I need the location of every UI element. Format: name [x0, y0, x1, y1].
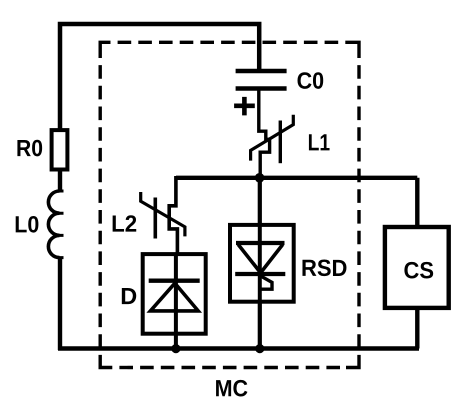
svg-text:L2: L2	[111, 211, 137, 237]
saturable inductor L1 winding (meander)	[259, 87, 270, 176]
L2 core bar	[154, 198, 158, 239]
svg-text:CS: CS	[404, 257, 435, 283]
svg-text:R0: R0	[16, 135, 43, 161]
load box CS	[385, 227, 449, 308]
svg-text:RSD: RSD	[301, 255, 348, 281]
dashed enclosure MC : corner pieces	[100, 42, 359, 367]
resistor R0	[52, 130, 68, 169]
C0 polarity plus sign	[234, 97, 255, 116]
wire: junction to RSD to bottom	[258, 178, 262, 349]
node: junction below L1	[255, 173, 265, 183]
svg-text:C0: C0	[297, 68, 325, 94]
svg-text:MC: MC	[215, 375, 249, 401]
wire: top loop (left vertical, top horizontal, C0 branch drop)	[60, 24, 259, 130]
wire through RSD (redrawn over box)	[258, 226, 262, 300]
node: bottom junction at RSD branch	[255, 344, 264, 353]
svg-text:L0: L0	[14, 211, 39, 237]
dashed enclosure MC : edges	[100, 42, 359, 367]
wire: bottom rail	[58, 346, 419, 350]
wire: R0 to L0	[58, 170, 62, 193]
svg-text:L1: L1	[308, 129, 331, 155]
svg-text:D: D	[120, 283, 137, 309]
L1 adjust arrow	[251, 115, 294, 161]
diode D symbol	[149, 279, 200, 283]
wire through D branch	[174, 256, 178, 349]
saturable inductor L2 winding (meander)	[169, 176, 177, 254]
L2 adjust arrow	[141, 192, 185, 236]
wire: mid horizontal rail	[176, 176, 417, 180]
dynistor RSD symbol	[236, 241, 285, 245]
labels (tiny rotation forces grayscale AA)	[14, 67, 434, 401]
capacitor C0 plates	[236, 69, 287, 73]
L1 core bar	[279, 121, 282, 164]
diode box D	[143, 254, 206, 334]
dynistor box RSD	[230, 225, 294, 302]
wire: L0 to bottom rail	[58, 257, 62, 350]
wire: CS branch verticals	[415, 178, 419, 227]
node: bottom junction at D branch	[171, 344, 180, 353]
inductor L0	[48, 191, 59, 258]
